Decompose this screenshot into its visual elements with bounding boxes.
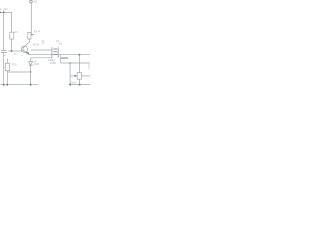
label bus net	[70, 82, 76, 85]
arrowhead into U2	[75, 75, 78, 77]
svg-text:R5 4k: R5 4k	[34, 31, 41, 34]
wire base	[8, 50, 22, 52]
node F junction dot	[30, 71, 32, 73]
box U2	[77, 73, 81, 80]
label Q1 value	[33, 43, 40, 46]
polarity mark	[4, 55, 6, 57]
label Q1	[14, 53, 17, 56]
wire left vertical upper	[3, 10, 5, 51]
wire lower-left box stub top	[6, 59, 8, 64]
label X1 line1	[48, 59, 55, 62]
wire rail y63	[61, 62, 90, 64]
ground bus left	[0, 84, 39, 86]
wire lower-left vertical	[6, 71, 8, 85]
resistor R1	[10, 32, 14, 39]
wire rail y54.7	[28, 54, 90, 56]
node E junction dot	[27, 52, 29, 54]
svg-text:R10: R10	[12, 63, 17, 66]
junction dots bus left	[3, 84, 5, 86]
wire box right pin	[82, 75, 91, 77]
svg-text:5U: 5U	[4, 8, 7, 11]
svg-text:T1: T1	[88, 68, 90, 71]
crystal X1 body	[53, 48, 57, 50]
connector left-edge stub	[0, 12, 1, 13]
node VCC label	[0, 8, 8, 11]
wire vertical x60.7	[60, 55, 62, 63]
crystal X1 left plate	[51, 47, 53, 58]
wire x=11.6 upper	[11, 12, 13, 32]
wire top-left horizontal	[0, 11, 12, 13]
capacitor C1	[1, 49, 7, 51]
crystal X1 right plate	[57, 47, 59, 58]
transistor Q1	[21, 42, 29, 53]
wire rail y50	[31, 49, 52, 51]
svg-text:455E: 455E	[50, 62, 56, 65]
diode D2	[29, 62, 33, 65]
label right edge top	[88, 64, 92, 67]
label right edge bottom	[88, 68, 92, 71]
wire box bottom pin	[78, 79, 80, 84]
wire diode vertical top	[30, 58, 32, 62]
node A junction dot	[3, 11, 5, 13]
label 14	[34, 0, 37, 4]
label cap values	[42, 40, 63, 46]
wire diode vertical bottom	[30, 65, 32, 84]
trimmer R5	[28, 32, 31, 39]
capacitor C5 plates	[61, 57, 68, 59]
svg-text:4148: 4148	[33, 63, 39, 66]
wire collector stub	[28, 39, 30, 42]
wire vertical x70.1	[69, 63, 71, 85]
junction dots bus right	[69, 84, 71, 86]
svg-text:0Vref: 0Vref	[70, 82, 76, 85]
svg-text:BC54: BC54	[33, 43, 40, 46]
wire middle vertical	[30, 3, 32, 35]
node H junction dot	[78, 54, 80, 56]
wire rail y58	[31, 57, 52, 59]
wiper arrow	[31, 34, 34, 36]
label R10	[12, 63, 17, 66]
resistor R10	[5, 63, 9, 70]
label D2	[33, 60, 39, 66]
ground bus right	[69, 84, 90, 86]
node G junction dot	[69, 62, 71, 64]
wire horizontal y72.7	[7, 71, 30, 73]
terminal pad 14	[30, 0, 33, 3]
wire left vertical lower	[3, 53, 5, 85]
label R5	[34, 31, 41, 34]
label X1 line2	[50, 62, 56, 65]
wire arrow branch	[70, 75, 75, 77]
svg-text:10u: 10u	[58, 43, 63, 46]
label R1	[15, 31, 19, 34]
wire emitter stub down	[27, 53, 29, 55]
wire vertical x79.4 upper	[78, 55, 80, 73]
wire x=11.6 lower	[11, 39, 13, 51]
node B junction dot	[11, 50, 13, 52]
